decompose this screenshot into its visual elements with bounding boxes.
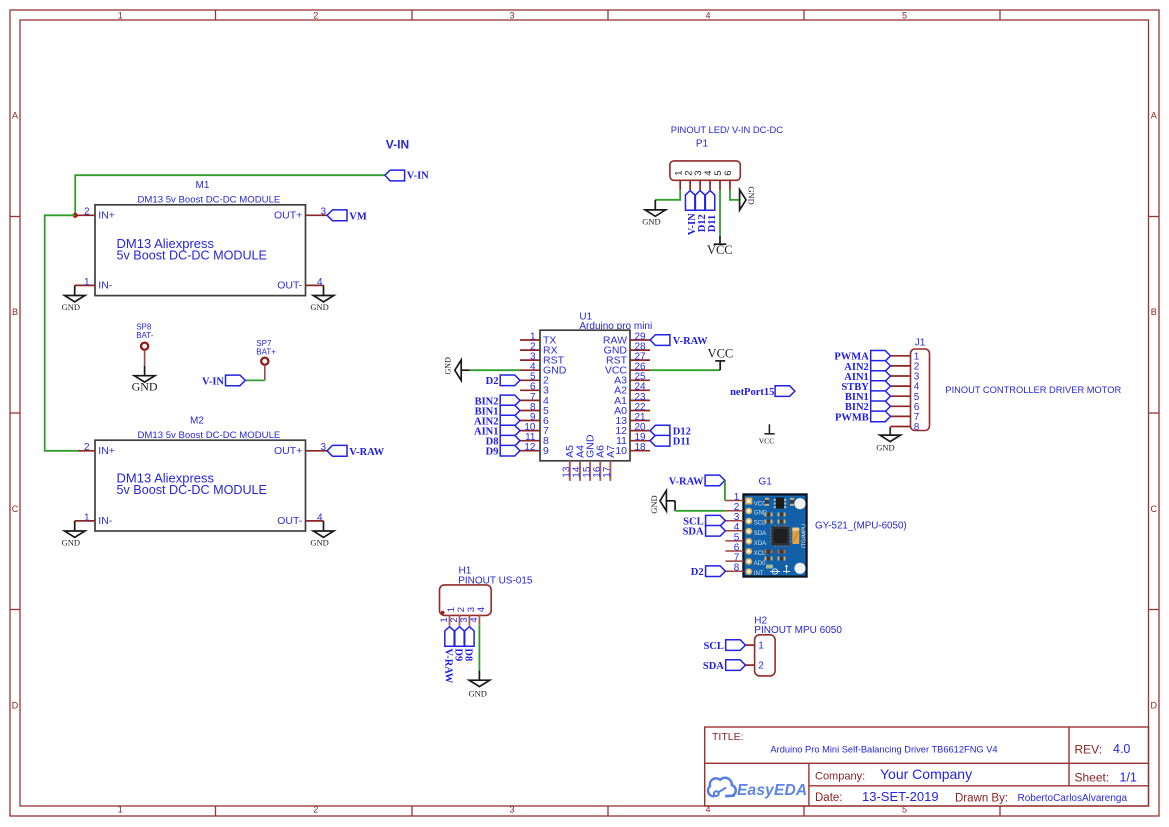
netflag BIN1 (J1 pin5) — [845, 391, 891, 403]
ground SP8 — [132, 366, 158, 394]
svg-text:V-RAW: V-RAW — [349, 447, 384, 458]
svg-text:B: B — [1151, 307, 1157, 317]
wire P1 pin1 to GND — [655, 190, 680, 200]
M1 pin 2 IN+ — [75, 214, 95, 216]
svg-text:V-IN: V-IN — [407, 171, 429, 182]
svg-text:GND: GND — [310, 537, 328, 547]
svg-text:V-IN: V-IN — [386, 137, 409, 151]
netflag BIN1 (U1 pin8) — [475, 405, 520, 417]
ground M2 IN- — [62, 521, 85, 547]
svg-text:D2: D2 — [486, 376, 499, 387]
header J1 — [891, 337, 930, 433]
M2 pin 2 IN+ — [78, 450, 95, 452]
netflag D9 (H1 pin2) — [453, 627, 465, 662]
svg-text:5v Boost DC-DC MODULE: 5v Boost DC-DC MODULE — [117, 483, 267, 497]
svg-text:1/1: 1/1 — [1120, 771, 1137, 785]
svg-text:D9: D9 — [453, 648, 464, 661]
wire U1 pin4 to GND flag — [470, 369, 520, 371]
svg-text:A: A — [1151, 111, 1157, 121]
svg-text:SCL: SCL — [754, 521, 766, 527]
svg-text:SDA: SDA — [754, 531, 766, 537]
axis arrows — [770, 565, 790, 575]
svg-text:4: 4 — [469, 617, 480, 622]
J1 pin stubs — [891, 356, 911, 427]
netflag V-RAW (G1 pin1) — [669, 475, 725, 487]
ground U1 pin4 (rotated left) — [443, 357, 469, 380]
svg-text:DM13 5v Boost DC-DC MODULE: DM13 5v Boost DC-DC MODULE — [137, 194, 280, 205]
svg-text:3: 3 — [320, 207, 326, 218]
netflag AIN1 (U1 pin10) — [474, 425, 520, 437]
netflag D12 (U1 pin20) — [650, 425, 691, 437]
M1 pin 3 OUT+ — [306, 214, 328, 216]
P1 pin names 1-6 — [673, 171, 734, 176]
ground P1 pin1 — [642, 200, 665, 227]
svg-text:VCC: VCC — [759, 436, 774, 445]
svg-text:M1: M1 — [196, 180, 210, 191]
svg-text:OUT-: OUT- — [277, 515, 303, 527]
svg-text:4.0: 4.0 — [1113, 742, 1130, 756]
netflag D8 (H1 pin3) — [463, 627, 475, 662]
svg-text:XDA: XDA — [754, 541, 766, 547]
power flag VCC (P1 pin5, down) — [707, 236, 733, 257]
netflag VM — [327, 210, 367, 223]
solder point SP7 BAT+ — [256, 339, 276, 381]
M1 pin 1 IN- — [75, 284, 95, 286]
tantalum cap — [792, 528, 799, 545]
svg-text:GND: GND — [468, 688, 486, 698]
svg-text:2: 2 — [313, 805, 318, 815]
ground M1 OUT- — [310, 285, 333, 312]
netflag PWMA (J1 pin1) — [834, 351, 890, 363]
svg-text:Your Company: Your Company — [880, 766, 972, 782]
svg-text:1: 1 — [118, 805, 123, 815]
top small IC — [776, 498, 785, 509]
svg-text:AD0: AD0 — [754, 561, 766, 567]
junction dot — [73, 213, 78, 218]
svg-text:3: 3 — [509, 805, 514, 815]
svg-text:D8: D8 — [463, 648, 474, 661]
netflag V-IN (SP7) — [202, 375, 245, 388]
wire SP7 to V-IN flag — [245, 379, 264, 381]
svg-text:D: D — [12, 700, 19, 710]
svg-text:8: 8 — [914, 422, 920, 433]
H1 pin stubs — [450, 615, 480, 625]
svg-text:12: 12 — [524, 442, 536, 453]
svg-text:SCL: SCL — [703, 641, 723, 652]
svg-text:1: 1 — [118, 10, 123, 20]
svg-text:18: 18 — [635, 442, 647, 453]
svg-text:GY-521_(MPU-6050): GY-521_(MPU-6050) — [815, 521, 907, 532]
svg-text:J1: J1 — [915, 337, 926, 348]
netflag D11 (P1 pin4) — [705, 191, 717, 233]
U1 left pin names — [543, 334, 567, 457]
header H2 PINOUT MPU 6050 — [746, 615, 843, 676]
svg-text:2: 2 — [84, 442, 90, 453]
EasyEDA logo — [708, 778, 807, 799]
svg-text:GND: GND — [443, 357, 452, 375]
svg-text:Drawn By:: Drawn By: — [955, 793, 1008, 805]
svg-text:D9: D9 — [486, 447, 499, 458]
header H1 PINOUT US-015 — [439, 565, 533, 625]
svg-text:VCC: VCC — [707, 243, 733, 257]
module M1 — [75, 180, 327, 296]
U1 right pin names — [603, 334, 628, 457]
svg-text:6: 6 — [723, 171, 734, 176]
wire J1 pin8 to GND — [889, 427, 891, 429]
netflag D2 (U1 pin5) — [486, 375, 520, 387]
svg-text:IN-: IN- — [98, 280, 113, 292]
svg-text:XCL: XCL — [754, 551, 766, 557]
netflag D8 (U1 pin11) — [486, 435, 520, 447]
svg-text:SP7: SP7 — [256, 339, 272, 348]
H1 pin numbers 1-4 — [439, 617, 480, 622]
svg-text:D11: D11 — [707, 215, 718, 233]
svg-text:C: C — [1150, 504, 1157, 514]
netflag SCL (G1 pin3) — [683, 515, 725, 527]
U1 left pin stubs 1-12 — [520, 340, 540, 451]
U1 left pin numbers — [524, 331, 536, 453]
svg-text:3: 3 — [509, 10, 514, 20]
U1 right pin numbers — [635, 331, 647, 453]
svg-text:VM: VM — [349, 211, 367, 222]
netflag SDA (G1 pin4) — [683, 526, 726, 538]
M1 pin 4 OUT- — [306, 284, 324, 286]
ground M2 OUT- — [310, 521, 333, 547]
svg-text:1: 1 — [84, 277, 90, 288]
svg-text:RobertoCarlosAlvarenga: RobertoCarlosAlvarenga — [1018, 793, 1128, 804]
svg-text:Arduino Pro Mini Self-Balancin: Arduino Pro Mini Self-Balancing Driver T… — [770, 745, 997, 755]
svg-text:17: 17 — [602, 466, 613, 478]
netflag V-RAW (U1 pin29) — [650, 335, 708, 347]
U1 right pin stubs 29-18 — [630, 340, 650, 451]
svg-text:5: 5 — [902, 10, 907, 20]
wire G1 pin1 — [724, 481, 726, 501]
wire P1 pin6 to GND — [730, 190, 739, 200]
svg-text:1: 1 — [758, 641, 764, 652]
svg-text:4: 4 — [317, 512, 323, 523]
svg-text:TITLE:: TITLE: — [712, 731, 744, 743]
netflag netPort15 — [730, 386, 795, 398]
solder point SP8 BAT- — [136, 323, 154, 366]
svg-text:OUT-: OUT- — [277, 280, 303, 292]
svg-text:VCC: VCC — [708, 347, 734, 361]
svg-text:1: 1 — [84, 512, 90, 523]
svg-text:PINOUT CONTROLLER DRIVER MOTOR: PINOUT CONTROLLER DRIVER MOTOR — [945, 385, 1121, 395]
svg-text:P1: P1 — [696, 139, 709, 150]
ground H1 pin4 — [468, 670, 489, 698]
svg-text:OUT+: OUT+ — [274, 445, 302, 457]
G1 pin stubs — [725, 501, 744, 572]
netflag V-IN (P1 pin2) — [685, 191, 697, 236]
netflag BIN2 (U1 pin7) — [475, 395, 520, 407]
netflag STBY (J1 pin4) — [841, 381, 890, 393]
svg-text:GND: GND — [642, 216, 660, 226]
svg-text:GND: GND — [876, 443, 894, 453]
netflag AIN1 (J1 pin3) — [844, 371, 890, 383]
wire G1 pin2 to GND — [674, 501, 676, 511]
smd resistors — [765, 498, 769, 506]
svg-text:SDA: SDA — [683, 527, 704, 538]
svg-text:GND: GND — [132, 380, 158, 394]
svg-text:A: A — [12, 111, 18, 121]
wire V-IN to M1 pin2 — [75, 175, 384, 215]
netflag V-RAW (M2 OUT+) — [327, 445, 385, 458]
M2 pin 1 IN- — [75, 520, 95, 522]
svg-text:PWMB: PWMB — [835, 412, 869, 423]
svg-text:IN-: IN- — [98, 515, 113, 527]
U1 bottom pin numbers — [562, 466, 614, 478]
svg-text:PINOUT LED/ V-IN DC-DC: PINOUT LED/ V-IN DC-DC — [671, 124, 784, 135]
M2 pin 3 OUT+ — [306, 450, 328, 452]
svg-text:V-RAW: V-RAW — [443, 648, 454, 683]
svg-text:OUT+: OUT+ — [274, 210, 302, 222]
svg-text:13-SET-2019: 13-SET-2019 — [862, 789, 939, 804]
netflag PWMB (J1 pin7) — [835, 411, 891, 423]
svg-text:C: C — [12, 504, 19, 514]
netflag SDA (H2 pin2) — [703, 660, 746, 672]
center QFN chip — [772, 527, 790, 546]
ground M1 IN- — [62, 285, 85, 312]
svg-text:V-RAW: V-RAW — [673, 336, 708, 347]
svg-text:SDA: SDA — [703, 661, 724, 672]
P1 pin stubs — [680, 180, 730, 190]
svg-text:4: 4 — [476, 607, 487, 612]
svg-text:2: 2 — [758, 661, 764, 672]
TITLEBLOCK — [705, 727, 1149, 806]
svg-text:INT: INT — [754, 571, 764, 577]
svg-text:Date:: Date: — [815, 792, 843, 804]
module G1 GY-521 MPU-6050 — [725, 476, 808, 577]
svg-text:G1: G1 — [759, 476, 773, 487]
H1 pin names 1-4 — [446, 607, 487, 612]
power flag VCC (U1 pin26) — [708, 347, 734, 371]
netflag V-IN (wire end) — [385, 170, 429, 182]
netflag V-RAW (H1 pin1) — [443, 627, 455, 684]
svg-text:netPort15: netPort15 — [730, 387, 774, 398]
svg-text:DM13 5v Boost DC-DC MODULE: DM13 5v Boost DC-DC MODULE — [137, 430, 280, 441]
svg-text:D: D — [1150, 700, 1157, 710]
svg-text:4: 4 — [705, 10, 710, 20]
J1 pin numbers 1-8 — [914, 351, 920, 433]
svg-text:V-RAW: V-RAW — [669, 476, 704, 487]
netflag AIN2 (U1 pin9) — [474, 415, 520, 427]
svg-text:A7: A7 — [605, 445, 617, 458]
netflag D2 (G1 pin8) — [691, 566, 726, 578]
ground G1 pin2 (rotated left) — [649, 491, 675, 514]
ground J1 pin8 — [876, 428, 900, 453]
netflag AIN2 (J1 pin2) — [844, 361, 890, 373]
netflag BIN2 (J1 pin6) — [845, 401, 891, 413]
svg-text:IN+: IN+ — [98, 210, 115, 222]
svg-text:4: 4 — [317, 277, 323, 288]
ground P1 pin6 (rotated right) — [740, 186, 757, 210]
U1 bottom pin names — [564, 434, 617, 458]
svg-text:ITG/MPU: ITG/MPU — [802, 524, 808, 548]
svg-text:2: 2 — [84, 207, 90, 218]
M2 pin 4 OUT- — [306, 520, 324, 522]
svg-text:5v Boost DC-DC MODULE: 5v Boost DC-DC MODULE — [117, 249, 267, 263]
svg-text:3: 3 — [320, 442, 326, 453]
wire U1 pin26 to VCC — [650, 369, 720, 371]
svg-text:GND: GND — [62, 537, 80, 547]
svg-text:2: 2 — [313, 10, 318, 20]
svg-text:EasyEDA: EasyEDA — [737, 782, 807, 799]
svg-text:IN+: IN+ — [98, 445, 115, 457]
netflag D9 (U1 pin12) — [486, 445, 520, 457]
svg-text:Sheet:: Sheet: — [1075, 771, 1110, 785]
svg-text:M2: M2 — [190, 416, 204, 427]
svg-text:GND: GND — [649, 495, 659, 513]
svg-text:9: 9 — [543, 445, 549, 457]
wire H1 pin4 to GND — [478, 625, 480, 671]
G1 board graphic — [744, 495, 808, 578]
svg-text:GND: GND — [62, 302, 80, 312]
svg-text:V-IN: V-IN — [202, 377, 224, 388]
netflag D12 (P1 pin3) — [695, 191, 708, 233]
IC U1 Arduino pro mini — [520, 311, 652, 481]
U1 bottom pin stubs 13-17 — [570, 461, 611, 481]
svg-text:B: B — [12, 307, 18, 317]
netflag SCL (H2 pin1) — [703, 640, 745, 652]
G1 pin numbers — [734, 492, 740, 574]
svg-text:GND: GND — [747, 186, 757, 204]
svg-text:BAT+: BAT+ — [256, 348, 276, 357]
svg-text:10: 10 — [615, 445, 627, 457]
module M2 — [75, 416, 327, 532]
svg-text:Company:: Company: — [815, 771, 865, 783]
H2 pin stubs — [746, 644, 755, 646]
svg-text:D2: D2 — [691, 567, 704, 578]
svg-text:REV:: REV: — [1075, 743, 1103, 757]
svg-text:8: 8 — [734, 563, 740, 574]
svg-text:BAT-: BAT- — [136, 331, 154, 340]
svg-text:D11: D11 — [673, 437, 691, 448]
wire junction to M2 pin2 — [45, 215, 78, 450]
power flag VCC small (near J1) — [759, 424, 775, 445]
header P1 PINOUT LED/V-IN DC-DC — [670, 124, 783, 190]
netflag D11 (U1 pin19) — [650, 435, 690, 447]
wire P1 pin5 to VCC — [719, 190, 721, 236]
svg-text:GND: GND — [310, 302, 328, 312]
